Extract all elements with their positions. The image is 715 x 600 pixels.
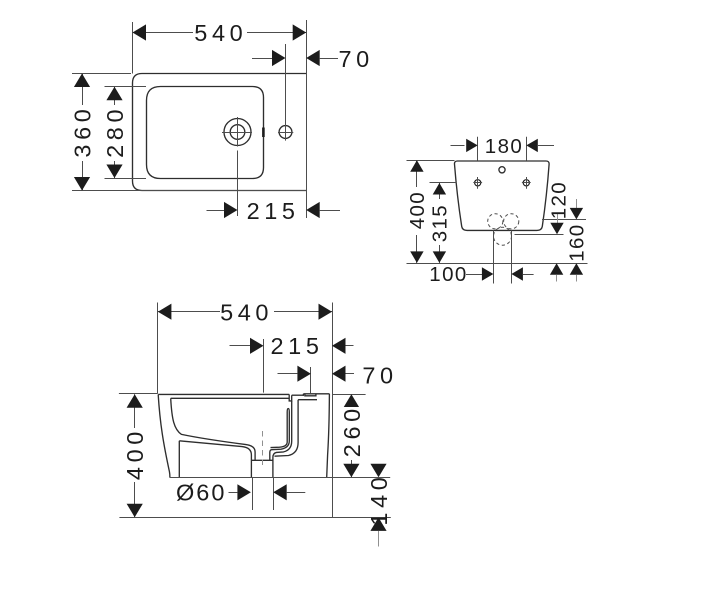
svg-text:215: 215	[270, 333, 323, 359]
svg-text:120: 120	[547, 181, 570, 219]
svg-text:315: 315	[429, 204, 452, 242]
svg-text:260: 260	[339, 404, 365, 457]
svg-text:Ø60: Ø60	[176, 480, 226, 506]
svg-text:280: 280	[102, 105, 128, 158]
svg-text:215: 215	[247, 198, 300, 224]
svg-text:360: 360	[69, 105, 95, 158]
svg-text:400: 400	[406, 191, 429, 229]
svg-text:70: 70	[362, 362, 397, 388]
svg-text:400: 400	[122, 427, 148, 480]
svg-text:540: 540	[220, 300, 273, 326]
svg-text:140: 140	[366, 473, 392, 526]
svg-text:540: 540	[194, 20, 247, 46]
svg-text:160: 160	[566, 223, 589, 261]
svg-text:100: 100	[429, 263, 467, 286]
svg-text:180: 180	[485, 135, 523, 158]
svg-text:70: 70	[339, 46, 374, 72]
